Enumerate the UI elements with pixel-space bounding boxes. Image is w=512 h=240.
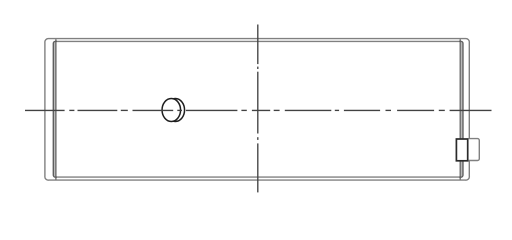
oil hole depth ellipse (rear)	[166, 99, 185, 122]
right parting face inner shading	[461, 42, 463, 177]
outer shell outline with locating-tab notch at right	[45, 39, 479, 181]
oil hole front ellipse	[162, 99, 181, 122]
vertical centerline	[257, 25, 259, 193]
left parting face second line	[55, 39, 57, 179]
left parting face dark edge	[53, 41, 57, 177]
inner contour (wall thickness line)	[53, 41, 463, 177]
locating tab rectangle	[456, 139, 467, 161]
left parting face inner shading	[54, 42, 56, 177]
right parting face dark edge	[459, 41, 463, 177]
right parting face second line	[459, 39, 461, 179]
horizontal centerline	[25, 109, 492, 111]
